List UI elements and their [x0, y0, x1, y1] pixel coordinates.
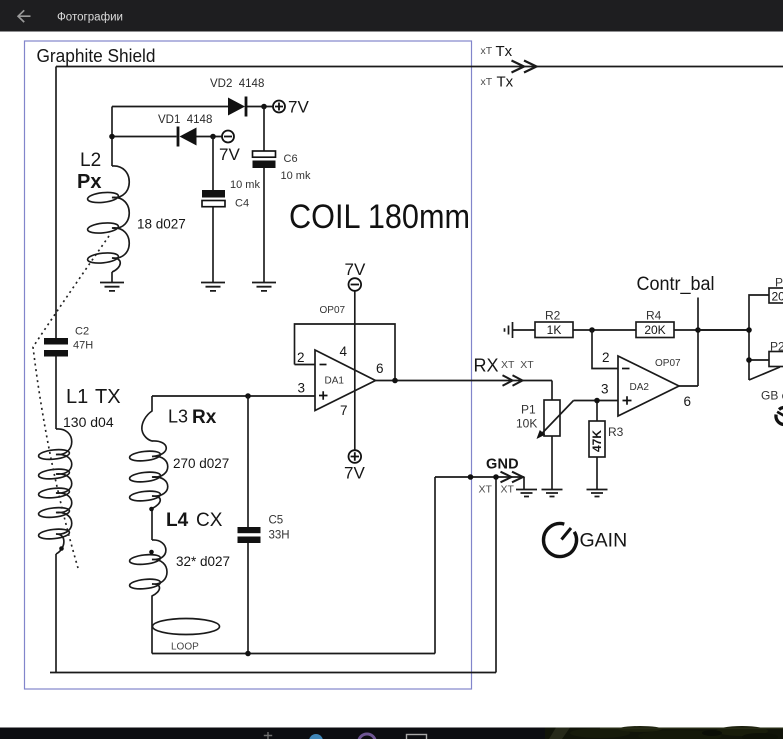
svg-text:4: 4 — [340, 344, 348, 359]
svg-text:7: 7 — [340, 403, 348, 418]
svg-text:P1: P1 — [521, 403, 536, 417]
svg-text:6: 6 — [376, 361, 384, 376]
junction VD2-C6 node — [261, 104, 267, 110]
svg-text:RX: RX — [474, 356, 499, 376]
bottom taskbar — [0, 728, 783, 739]
inductor L1 — [38, 429, 72, 554]
svg-text:L4: L4 — [166, 510, 189, 531]
svg-text:7V: 7V — [219, 145, 240, 164]
op-amp DA1 — [315, 350, 376, 411]
svg-text:1K: 1K — [547, 323, 562, 337]
svg-text:xT: xT — [481, 76, 493, 88]
svg-text:7V: 7V — [345, 260, 366, 279]
svg-text:2: 2 — [602, 350, 610, 365]
Tx line arrows — [512, 61, 537, 73]
svg-text:OP07: OP07 — [655, 358, 681, 369]
svg-text:XT: XT — [501, 484, 515, 496]
taskbar photo thumbnail texture — [545, 726, 783, 739]
RX arrows — [503, 375, 523, 386]
svg-text:DA2: DA2 — [630, 382, 650, 393]
svg-text:CX: CX — [196, 510, 223, 531]
wire VD2 row — [112, 106, 273, 108]
svg-text:Tx: Tx — [496, 43, 513, 60]
shield dashed boundary — [33, 236, 109, 568]
GND arrows — [501, 472, 524, 483]
DA2 labels — [601, 350, 691, 409]
resistor P3 top right — [769, 276, 783, 304]
svg-text:47K: 47K — [590, 430, 604, 452]
knob GAIN — [543, 524, 576, 557]
svg-text:32* d027: 32* d027 — [176, 554, 230, 569]
svg-text:C4: C4 — [235, 198, 249, 210]
label L3 Rx — [168, 407, 229, 472]
loop ellipse — [153, 619, 220, 653]
taskbar plus icon — [264, 732, 272, 739]
svg-text:130 d04: 130 d04 — [63, 414, 114, 430]
svg-text:GB cr: GB cr — [761, 389, 783, 403]
potentiometer P1 — [516, 381, 574, 490]
capacitor C6 — [253, 107, 311, 283]
label L1 TX — [63, 386, 121, 430]
DA1 feedback box — [295, 324, 396, 381]
label GND — [479, 457, 519, 496]
wire L2 rail — [111, 107, 113, 283]
ground left of R2 — [505, 322, 513, 338]
svg-text:Contr_bal: Contr_bal — [637, 274, 715, 295]
junction L2-VD1 node — [109, 134, 115, 140]
svg-text:C2: C2 — [75, 326, 89, 338]
svg-text:C6: C6 — [284, 153, 298, 165]
power +7V DA1 bottom — [344, 450, 365, 482]
svg-text:10K: 10K — [516, 417, 537, 431]
wire DA1 output RX — [376, 380, 553, 382]
DA1 power rail — [354, 291, 356, 450]
wire VD1 row — [112, 136, 222, 138]
wire right branch — [698, 295, 780, 380]
svg-text:GAIN: GAIN — [580, 530, 628, 552]
L1 polarity dot — [59, 546, 64, 551]
power +7V top — [273, 98, 309, 117]
label L2 Px — [77, 150, 186, 232]
ground under L2 — [100, 283, 124, 291]
svg-text:R3: R3 — [608, 425, 624, 439]
wire Contr_bal stem — [697, 298, 699, 331]
wire Tx top shield line — [56, 66, 783, 68]
inductor L4 — [129, 540, 167, 654]
L3 polarity dot — [149, 507, 154, 512]
svg-text:7V: 7V — [344, 464, 365, 483]
diode VD2 — [210, 78, 264, 117]
svg-text:7V: 7V — [288, 98, 309, 117]
svg-text:47H: 47H — [73, 340, 93, 352]
svg-text:Tx: Tx — [497, 74, 514, 91]
knob GB partial — [776, 408, 783, 425]
junction loop rail node — [245, 651, 251, 657]
svg-text:P3: P3 — [775, 276, 783, 290]
ground GND — [516, 490, 537, 497]
wire DA2 pin2 — [592, 330, 618, 369]
wire RX input row (pin3 net) — [152, 395, 315, 397]
ground under C4 — [201, 283, 225, 291]
junction pin3-R3 node — [594, 398, 600, 404]
svg-text:XT: XT — [479, 484, 493, 496]
app title bar — [0, 0, 783, 32]
svg-text:XT XT: XT XT — [501, 359, 534, 371]
inductor L2 — [87, 166, 129, 272]
label RX — [474, 356, 535, 376]
resistor R4 — [636, 309, 749, 338]
label L4 CX — [166, 510, 230, 569]
wire loop bottom rail — [152, 477, 435, 654]
svg-text:L2: L2 — [80, 150, 101, 171]
svg-text:C5: C5 — [269, 515, 284, 527]
taskbar blue circle icon — [309, 734, 323, 739]
svg-text:10 mk: 10 mk — [281, 170, 311, 182]
svg-text:LOOP: LOOP — [171, 642, 199, 653]
svg-text:2: 2 — [297, 350, 305, 365]
taskbar white square icon — [407, 735, 427, 739]
junction R2-R4 node — [589, 327, 595, 333]
wire left shield rail — [55, 67, 57, 673]
diode VD1 — [158, 114, 212, 147]
resistor R2 — [513, 309, 637, 338]
svg-text:VD1 4148: VD1 4148 — [158, 114, 212, 126]
DA1 minus plus marks — [319, 365, 328, 400]
resistor R3 — [589, 401, 624, 490]
inductor L3 — [129, 396, 168, 540]
svg-text:COIL 180mm: COIL 180mm — [289, 198, 470, 236]
capacitor C5 — [238, 396, 290, 654]
svg-text:OP07: OP07 — [320, 305, 346, 316]
op-amp DA2 — [618, 356, 679, 416]
node xT Tx upper — [481, 43, 513, 60]
junction Contr_bal node — [695, 327, 701, 333]
node xT Tx lower — [481, 74, 514, 91]
svg-text:20K: 20K — [644, 323, 665, 337]
junction VD1-C4 node — [210, 134, 216, 140]
ground under P1 — [542, 490, 563, 497]
wire GND row — [435, 477, 524, 489]
svg-text:Rx: Rx — [192, 407, 217, 428]
svg-text:xT: xT — [481, 45, 493, 57]
svg-text:R2: R2 — [545, 309, 561, 323]
ground under R3 — [587, 490, 608, 497]
power -7V DA1 top — [345, 260, 366, 291]
DA1 labels — [297, 305, 384, 418]
DA2 minus plus marks — [622, 369, 632, 405]
svg-text:10 mk: 10 mk — [230, 179, 260, 191]
svg-text:3: 3 — [601, 382, 609, 397]
svg-text:Px: Px — [77, 171, 101, 193]
wire DA2 output — [679, 330, 698, 386]
blue selection rectangle — [25, 41, 472, 689]
taskbar purple circle icon — [359, 734, 376, 739]
back arrow icon — [18, 10, 30, 22]
svg-text:DA1: DA1 — [325, 376, 345, 387]
wire bottom rail — [50, 477, 496, 673]
svg-text:270 d027: 270 d027 — [173, 456, 229, 471]
svg-text:3: 3 — [298, 381, 306, 396]
svg-text:VD2 4148: VD2 4148 — [210, 78, 264, 90]
svg-text:R4: R4 — [646, 309, 662, 323]
junction DA1 out node — [392, 378, 398, 384]
junction pin3-C5 node — [245, 393, 251, 399]
L4 polarity dot — [149, 550, 154, 555]
svg-text:P2: P2 — [770, 340, 783, 354]
capacitor C4 — [202, 137, 260, 283]
svg-text:Фотографии: Фотографии — [57, 12, 123, 24]
potentiometer P2 — [769, 340, 783, 367]
wire DA2 pin3 — [574, 400, 619, 402]
capacitor C2 — [44, 326, 93, 357]
power -7V mid — [219, 131, 240, 165]
svg-text:L3: L3 — [168, 407, 188, 427]
svg-text:Graphite Shield: Graphite Shield — [37, 46, 156, 66]
svg-text:L1: L1 — [66, 386, 88, 408]
svg-text:18 d027: 18 d027 — [137, 217, 186, 232]
svg-text:6: 6 — [684, 394, 692, 409]
svg-text:TX: TX — [95, 386, 121, 408]
junction GND nodes — [468, 474, 474, 480]
ground under C6 — [252, 283, 276, 291]
junction right nodes — [746, 327, 752, 333]
svg-text:20K: 20K — [772, 290, 783, 304]
svg-text:GND: GND — [486, 457, 519, 473]
svg-text:33H: 33H — [269, 530, 290, 542]
